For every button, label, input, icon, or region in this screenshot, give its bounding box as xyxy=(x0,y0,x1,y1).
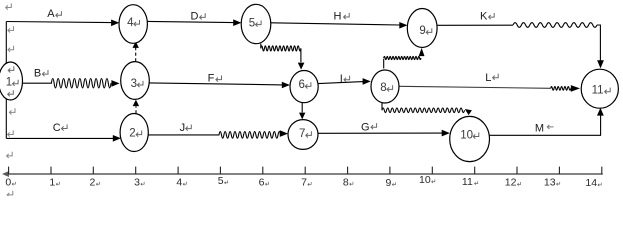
node 1 (event circle) xyxy=(0,62,23,100)
svg-text:9: 9 xyxy=(419,25,425,37)
line-break mark after L xyxy=(493,74,499,80)
wavy float line from node 5 down to node 6 xyxy=(260,44,262,49)
arrow I (activity 6-8) wire xyxy=(318,82,363,84)
node 2 (event circle) xyxy=(120,114,148,152)
line-break mark in node 1 lower line xyxy=(8,90,14,96)
svg-text:3: 3 xyxy=(131,78,137,90)
line-break mark in node 3 xyxy=(137,81,143,87)
line-break mark in node 4 xyxy=(134,20,140,26)
line-break mark after I xyxy=(344,76,350,82)
margin line-break mark below arrow C xyxy=(7,152,13,158)
line-break mark after H xyxy=(344,13,350,19)
svg-text:4: 4 xyxy=(176,176,182,188)
svg-text:H: H xyxy=(334,10,342,22)
arrow G (activity 7-10) wire xyxy=(318,132,442,134)
svg-text:3: 3 xyxy=(134,176,140,188)
svg-text:A: A xyxy=(47,8,55,20)
svg-text:12: 12 xyxy=(505,177,517,189)
svg-text:9: 9 xyxy=(386,177,392,189)
svg-text:7: 7 xyxy=(301,177,307,189)
svg-text:K: K xyxy=(480,11,488,23)
svg-text:7: 7 xyxy=(299,128,305,140)
line-break mark in node 9 xyxy=(426,28,432,34)
arrow J (activity 2-7) wavy wire xyxy=(148,132,280,139)
svg-text:1: 1 xyxy=(6,77,12,89)
line-break mark after C xyxy=(62,124,68,130)
svg-text:4: 4 xyxy=(127,17,134,29)
margin line-break mark below node 1 a xyxy=(9,108,15,114)
line-break mark after K xyxy=(489,13,495,19)
time axis line xyxy=(5,173,603,175)
svg-text:11: 11 xyxy=(462,176,473,188)
margin line-break mark bottom-left corner xyxy=(7,191,13,197)
svg-text:0: 0 xyxy=(5,176,11,188)
line-break mark in node 10 xyxy=(473,132,479,138)
arrow K (activity 9-11) wire with wavy section xyxy=(437,24,513,26)
arrow C (activity 1-2) horizontal wire xyxy=(6,137,113,139)
node 4 (event circle) xyxy=(119,5,147,44)
line-break mark after B xyxy=(42,70,48,76)
node 5 (event circle) xyxy=(241,4,271,43)
line-break mark in node 7 xyxy=(306,131,312,137)
svg-text:2: 2 xyxy=(90,176,96,188)
svg-text:M: M xyxy=(535,122,544,134)
svg-text:F: F xyxy=(208,73,215,85)
line-break mark in node 6 xyxy=(305,82,311,88)
line-break mark after A xyxy=(56,11,62,17)
node 3 (event circle) xyxy=(121,62,150,100)
wavy float line from node 8 down to node 10 xyxy=(381,103,383,110)
line-break mark after G xyxy=(371,123,377,129)
svg-text:1: 1 xyxy=(49,176,55,188)
arrow A (activity 1-4) horizontal wire xyxy=(6,22,111,23)
svg-text:10: 10 xyxy=(419,174,431,186)
margin line-break mark on A-C column 1 xyxy=(8,26,14,32)
node 8 (event circle) xyxy=(371,70,399,103)
arrow from node 6 down to node 7 xyxy=(301,103,303,113)
arrow B (activity 1-3) wavy wire xyxy=(22,79,111,88)
svg-text:8: 8 xyxy=(380,82,386,94)
svg-text:2: 2 xyxy=(129,127,135,139)
line-break mark in node 11 xyxy=(605,88,611,94)
margin line-break mark top-left xyxy=(6,3,12,9)
dashed dummy arrow from node 3 to node 4 xyxy=(135,45,137,61)
line-break mark in node 8 xyxy=(387,85,393,91)
svg-text:10: 10 xyxy=(460,129,473,141)
line-break mark in node 2 xyxy=(136,131,142,137)
svg-text:6: 6 xyxy=(299,79,305,91)
node 10 (event circle) xyxy=(450,116,490,161)
svg-text:13: 13 xyxy=(544,176,556,188)
svg-text:G: G xyxy=(361,122,370,134)
axis tick marks 0-14 xyxy=(9,167,602,174)
svg-text:8: 8 xyxy=(343,176,349,188)
dashed dummy arrow from node 2 to node 3 xyxy=(135,106,137,113)
svg-text:C: C xyxy=(53,122,61,134)
node 11 (event circle) xyxy=(581,69,618,108)
line-break mark in node 1 upper line xyxy=(8,66,14,72)
line-break mark after D xyxy=(200,13,206,19)
svg-text:5: 5 xyxy=(249,17,255,29)
svg-text:11: 11 xyxy=(592,85,604,97)
svg-text:I: I xyxy=(340,73,343,85)
left-arrow mark after M xyxy=(547,125,553,129)
svg-text:5: 5 xyxy=(218,175,224,187)
arrow L (activity 8-11) wire with small wavy section xyxy=(399,86,551,88)
svg-text:6: 6 xyxy=(259,176,265,188)
svg-text:L: L xyxy=(485,72,491,84)
wire from node 1 bottom down xyxy=(5,99,7,138)
svg-text:14: 14 xyxy=(585,177,597,189)
arrow M (activity 10-11) wire xyxy=(490,113,601,136)
node 9 (event circle) xyxy=(407,9,437,48)
line-break mark in node 5 xyxy=(256,21,262,27)
margin line-break mark below node 1 b xyxy=(8,130,14,136)
node 7 (event circle) xyxy=(288,120,318,150)
line-break mark in node 1 xyxy=(13,80,19,86)
svg-text:J: J xyxy=(180,122,186,134)
wavy float line from node 8 up to node 9 xyxy=(383,59,385,69)
wire from node 1 top to arrow A corner xyxy=(5,22,7,64)
svg-text:B: B xyxy=(34,67,41,79)
margin line-break mark on A-C column 2 xyxy=(8,46,14,52)
line-break mark after F xyxy=(216,76,222,82)
arrow D (activity 4-5) wire xyxy=(147,21,233,22)
node 6 (event circle) xyxy=(290,71,318,103)
line-break mark after J xyxy=(186,125,192,131)
arrow H (activity 5-9) wire xyxy=(271,23,400,25)
arrow F (activity 3-6) wire xyxy=(149,83,282,85)
svg-text:D: D xyxy=(191,10,199,22)
